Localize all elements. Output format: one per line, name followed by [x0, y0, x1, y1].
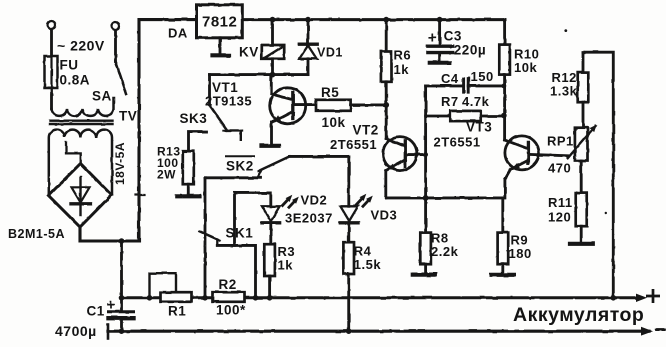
svg-text:4.7k: 4.7k	[462, 94, 490, 109]
svg-text:R2: R2	[219, 277, 237, 292]
svg-text:2T6551: 2T6551	[434, 135, 481, 150]
svg-text:150: 150	[471, 69, 494, 84]
svg-text:180: 180	[509, 246, 532, 261]
svg-text:2W: 2W	[157, 168, 176, 182]
svg-text:VD2: VD2	[301, 193, 328, 208]
svg-text:4700µ: 4700µ	[55, 323, 97, 339]
svg-text:C3: C3	[444, 29, 462, 44]
svg-text:120: 120	[548, 210, 571, 225]
svg-text:1.3k: 1.3k	[550, 84, 578, 99]
svg-text:Аккумулятор: Аккумулятор	[513, 304, 644, 326]
svg-text:~ 220V: ~ 220V	[57, 38, 105, 54]
svg-text:VT3: VT3	[466, 120, 492, 135]
svg-text:1.5k: 1.5k	[354, 257, 382, 272]
svg-text:R7: R7	[441, 94, 459, 109]
svg-text:2.2k: 2.2k	[431, 244, 459, 259]
svg-text:0.8A: 0.8A	[60, 73, 91, 88]
svg-text:10k: 10k	[514, 60, 537, 75]
svg-text:220µ: 220µ	[454, 43, 486, 58]
svg-text:R6: R6	[394, 48, 412, 63]
svg-text:1k: 1k	[394, 62, 410, 77]
svg-text:C1: C1	[87, 304, 105, 319]
svg-text:R5: R5	[321, 85, 339, 100]
svg-text:R11: R11	[548, 195, 573, 210]
svg-text:2T9135: 2T9135	[205, 94, 252, 109]
svg-text:RP1: RP1	[547, 134, 574, 149]
svg-text:7812: 7812	[202, 14, 237, 31]
svg-text:100*: 100*	[216, 303, 246, 318]
svg-text:3Е2037: 3Е2037	[285, 211, 333, 226]
svg-text:DA: DA	[168, 26, 188, 41]
svg-text:VT2: VT2	[353, 123, 379, 138]
svg-text:SA: SA	[92, 89, 112, 104]
svg-text:FU: FU	[60, 58, 79, 73]
svg-text:VD3: VD3	[371, 208, 398, 223]
svg-text:R1: R1	[168, 304, 186, 319]
svg-text:SK3: SK3	[180, 111, 208, 126]
svg-text:18V-5A: 18V-5A	[113, 142, 127, 185]
svg-text:SK2: SK2	[226, 159, 254, 174]
svg-text:B2M1-5A: B2M1-5A	[8, 227, 65, 241]
svg-text:470: 470	[548, 161, 571, 176]
svg-text:VD1: VD1	[317, 46, 343, 60]
svg-text:1k: 1k	[278, 258, 294, 273]
svg-text:KV: KV	[239, 45, 259, 60]
svg-text:2T6551: 2T6551	[330, 137, 377, 152]
svg-text:10k: 10k	[322, 115, 346, 130]
svg-text:TV: TV	[119, 109, 137, 124]
svg-text:C4: C4	[441, 71, 459, 86]
svg-text:SK1: SK1	[226, 226, 254, 241]
